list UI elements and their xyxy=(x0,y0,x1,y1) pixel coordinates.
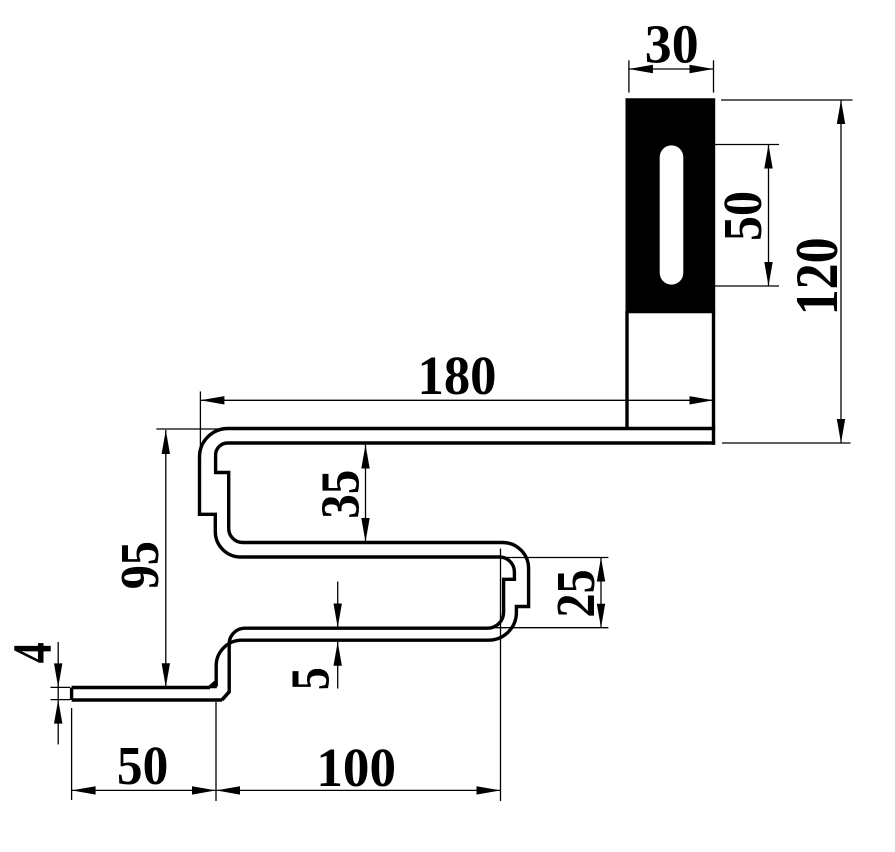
dim 180 right arrowhead xyxy=(690,396,714,404)
inner sheet surface: left flange joggle inner, middle web top, right U-bend outer notch, lower web bottom xyxy=(216,443,529,687)
dim 5 lower arrowhead xyxy=(334,642,342,666)
dim 30 right extension line xyxy=(713,60,715,92)
svg-text:120: 120 xyxy=(784,237,850,315)
dim 4 bottom extension tick xyxy=(51,699,71,701)
dim 25 bottom arrowhead xyxy=(597,604,605,628)
dim 180 dimension line xyxy=(200,399,713,401)
dim 25 bottom extension line xyxy=(494,627,608,629)
dim 120 top extension line xyxy=(721,99,853,101)
svg-text:95: 95 xyxy=(109,541,170,589)
dim 50 slot dimension line xyxy=(768,145,770,287)
top arm upper surface xyxy=(228,427,715,430)
dim 50 bottom left arrowhead xyxy=(72,786,96,794)
plate lower portion left edge xyxy=(625,311,628,430)
dim 50 slot top arrowhead xyxy=(764,145,772,169)
dim 120 top arrowhead xyxy=(837,100,845,124)
dim 4 lower arrowhead xyxy=(54,700,62,724)
dim 5 upper leader line xyxy=(337,582,339,628)
weld fillet wedge at foot corner xyxy=(209,681,216,687)
dim 120 bottom extension line xyxy=(722,442,851,444)
foot plate top surface xyxy=(72,686,210,689)
top mounting plate (black filled) with slotted hole xyxy=(626,98,716,313)
svg-text:50: 50 xyxy=(117,735,168,796)
svg-text:25: 25 xyxy=(545,569,606,617)
svg-text:100: 100 xyxy=(316,737,396,798)
dim 120 bottom arrowhead xyxy=(837,419,845,443)
dim 95 bottom arrowhead xyxy=(162,663,170,687)
dim 180 left extension line xyxy=(199,391,201,448)
dim 50 slot bottom arrowhead xyxy=(764,262,772,286)
chamfer edge at foot right corner xyxy=(222,692,229,700)
dim 4 upper arrowhead xyxy=(54,663,62,687)
dim 95 dimension line xyxy=(165,430,167,687)
dim 35 dimension line xyxy=(365,445,367,543)
dim 30 dimension line xyxy=(629,68,714,70)
svg-text:5: 5 xyxy=(280,667,341,690)
dim 50 bottom right arrowhead xyxy=(192,786,216,794)
dim 30 left extension line xyxy=(628,60,630,92)
svg-text:30: 30 xyxy=(645,13,699,74)
foot plate left end edge xyxy=(70,688,73,701)
svg-text:180: 180 xyxy=(418,345,497,406)
dim 95 top extension line xyxy=(156,428,220,430)
dim 25 top extension line xyxy=(504,557,608,559)
dim 50 slot top extension line xyxy=(715,144,779,146)
dim 50 bottom dimension line xyxy=(72,789,216,791)
svg-text:4: 4 xyxy=(1,642,62,663)
dim 25 dimension line xyxy=(600,558,602,628)
dim 35 top arrowhead xyxy=(361,445,369,469)
dim 5 upper arrowhead xyxy=(334,604,342,628)
dim 35 bottom arrowhead xyxy=(361,518,369,542)
outer sheet surface: left flange with joggle, middle web bottom, right U-bend inner tab, lower web top xyxy=(200,429,515,701)
dim 25 top arrowhead xyxy=(597,558,605,582)
dim 180 left arrowhead xyxy=(200,396,224,404)
dim 50 slot bottom extension line xyxy=(715,285,779,287)
svg-text:50: 50 xyxy=(712,191,773,241)
dim 100 left arrowhead xyxy=(216,786,240,794)
top arm lower surface xyxy=(228,441,716,444)
dim 30 left arrowhead xyxy=(629,65,653,73)
dim 100 dimension line xyxy=(216,789,501,791)
foot plate bottom surface xyxy=(72,698,222,701)
dim 100 left extension line xyxy=(215,702,217,801)
dim 4 dimension line xyxy=(57,642,59,744)
dim 120 dimension line xyxy=(840,100,842,443)
dim 100 right arrowhead xyxy=(477,786,501,794)
dim 5 lower leader line xyxy=(337,642,339,689)
dim 4 top extension tick xyxy=(51,686,71,688)
svg-text:35: 35 xyxy=(309,470,370,519)
plate lower portion right edge xyxy=(712,311,715,445)
dim 100 right extension line xyxy=(500,549,502,802)
dim 30 right arrowhead xyxy=(690,65,714,73)
dim 95 top arrowhead xyxy=(162,430,170,454)
dim 50 bottom left extension line xyxy=(71,708,73,800)
